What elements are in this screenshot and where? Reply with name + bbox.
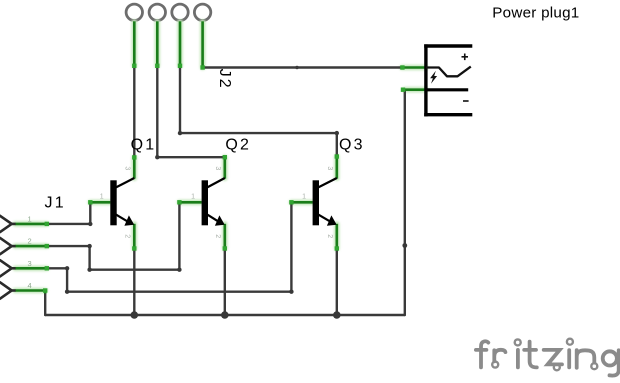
plug lightning bolt: [430, 71, 437, 84]
Q3 collector stroke: [318, 178, 337, 188]
wire Q3 emitter to bus: [336, 249, 338, 316]
Q3 collector leg: [335, 157, 338, 179]
J1 pin 4 leg: [15, 291, 45, 294]
J2 pin 1 leg: [133, 21, 136, 66]
power plug symbol: [424, 44, 472, 116]
logo letter z: [544, 350, 562, 365]
Q1 collector stroke: [116, 178, 135, 188]
plug spring contact: [426, 67, 471, 77]
svg-text:Q1: Q1: [131, 136, 157, 153]
J2 pin 2 leg: [156, 21, 159, 66]
logo letter g: [603, 351, 617, 365]
label J1 pin numbers: [28, 215, 32, 291]
plug top wall: [424, 44, 472, 47]
Q1 base bar: [110, 180, 116, 225]
Q3 base leg: [291, 201, 312, 204]
J1 pin 2 leg: [15, 245, 47, 248]
J2 pin 3 circle: [172, 4, 188, 20]
svg-text:3: 3: [214, 166, 221, 170]
Q2 base leg: [179, 201, 201, 204]
J2 pin 4 leg: [201, 21, 204, 67]
connector J2 pin circles: [126, 4, 211, 20]
wire Q1 emitter to bus: [133, 249, 135, 316]
svg-text:4: 4: [28, 281, 32, 290]
Q1 emitter stroke: [116, 215, 131, 224]
svg-text:Q3: Q3: [339, 136, 365, 153]
wire power plug minus down: [404, 90, 406, 315]
wire J2.4 to power plug plus: [203, 66, 402, 68]
joint dot on plus wire: [295, 66, 298, 69]
J1 pin 1 leg: [15, 223, 47, 226]
Q2 collector stroke: [207, 178, 225, 188]
power plug plus leg: [402, 66, 426, 69]
svg-text:3: 3: [123, 166, 130, 170]
junction dot wire2 bend: [155, 155, 159, 159]
J2 pin 1 circle: [126, 4, 142, 20]
svg-text:2: 2: [123, 234, 130, 238]
plug bottom wall: [424, 113, 472, 116]
junction dot wire3 bend right: [335, 131, 339, 135]
ground bus wire: [45, 314, 405, 316]
wire J2.3 to Q3 collector: [180, 66, 337, 157]
transistor Q2: [191, 166, 225, 238]
logo letter i2: [567, 350, 571, 367]
Q3 emitter leg: [335, 224, 338, 249]
svg-text:J2: J2: [216, 69, 233, 90]
junction dot pin3 bends: [65, 266, 69, 270]
Q1 emitter arrow: [124, 215, 134, 225]
logo letter i: [516, 350, 520, 368]
svg-text:Q2: Q2: [225, 136, 251, 153]
J2 pin 4 circle: [194, 4, 210, 20]
svg-text:2: 2: [326, 234, 333, 238]
wire J2.1 to Q1 collector: [133, 66, 135, 158]
logo letter r: [494, 350, 505, 362]
junction dot wire3 bend left: [178, 131, 182, 135]
connection point markers: [43, 64, 405, 293]
Q3 emitter stroke: [318, 215, 333, 224]
plug plus mark: [462, 54, 469, 61]
wire J2.2 to Q2 collector: [157, 66, 225, 157]
junction dot pin1 bend: [88, 222, 92, 226]
Q1 emitter leg: [133, 224, 136, 249]
svg-text:3: 3: [28, 259, 32, 268]
svg-text:1: 1: [302, 194, 306, 201]
svg-text:1: 1: [28, 215, 32, 224]
wire J1.1 to Q1 base: [47, 202, 91, 224]
svg-text:J1: J1: [45, 195, 66, 212]
J2 pin 2 circle: [149, 4, 165, 20]
Q2 emitter arrow: [215, 215, 225, 225]
plug minus mark: [463, 100, 469, 102]
J2 pin 3 leg: [179, 21, 182, 66]
svg-text:2: 2: [214, 234, 221, 238]
transistor Q1: [100, 166, 135, 238]
connector J1 pin 2 arrow: [0, 238, 12, 255]
wire J1.2 to Q2 base: [47, 202, 180, 269]
junction dot pin2 bends: [87, 244, 91, 248]
node Q2 emitter on bus: [221, 311, 229, 319]
logo letter f: [476, 341, 488, 367]
junction dot minus wire mid: [402, 243, 407, 248]
logo letter n: [577, 350, 595, 368]
plug left wall: [424, 44, 427, 116]
Q2 emitter leg: [224, 224, 227, 249]
wire Q2 emitter to bus: [224, 249, 226, 316]
svg-text:3: 3: [326, 166, 333, 170]
Q2 base bar: [202, 180, 208, 225]
Q3 emitter arrow: [327, 215, 337, 225]
svg-text:Power plug1: Power plug1: [492, 5, 579, 22]
fritzing watermark logo: [476, 339, 619, 376]
connector J1 pin 4 arrow: [0, 282, 12, 299]
Q3 base bar: [313, 180, 319, 225]
node Q3 emitter on bus: [333, 311, 341, 319]
Q2 collector leg: [224, 157, 227, 178]
plug minus bar: [426, 88, 468, 91]
svg-text:1: 1: [100, 194, 104, 201]
J1 pin 3 leg: [15, 267, 47, 270]
wire J1.3 to Q3 base: [47, 202, 292, 291]
Q1 collector leg: [133, 157, 136, 178]
svg-text:2: 2: [28, 237, 32, 246]
connector J1 pin 1 arrow: [0, 215, 12, 232]
Q2 emitter stroke: [207, 215, 221, 224]
logo letter t: [524, 342, 537, 368]
svg-text:1: 1: [191, 194, 195, 201]
connector J1 pin 3 arrow: [0, 260, 12, 277]
transistor Q3: [302, 166, 337, 238]
Q1 base leg: [90, 201, 110, 204]
wire J1.4 to ground bus: [44, 291, 46, 316]
power plug minus leg: [405, 88, 426, 91]
node Q1 emitter on bus: [131, 311, 139, 319]
